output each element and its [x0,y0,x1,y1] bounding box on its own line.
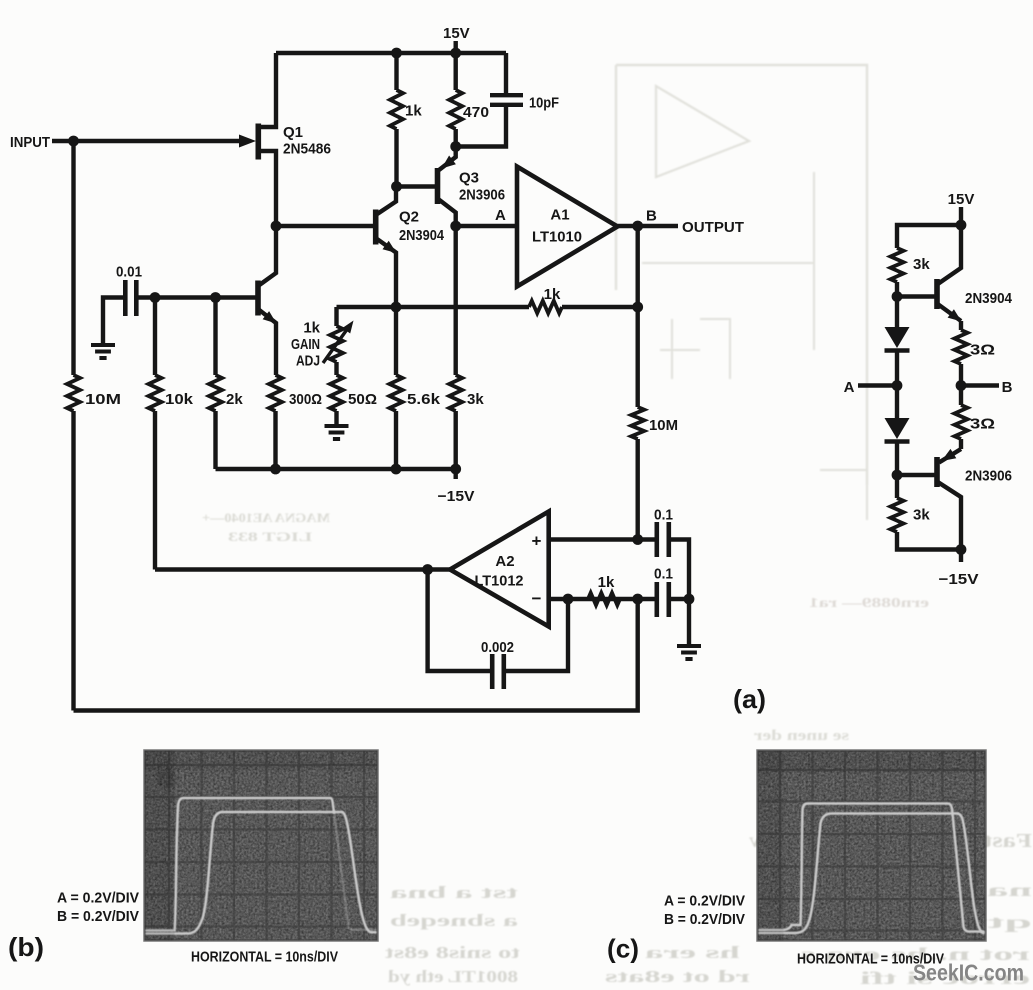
svg-text:1k: 1k [598,574,615,591]
svg-text:A1: A1 [550,207,569,224]
svg-text:HORIZONTAL = 10ns/DIV: HORIZONTAL = 10ns/DIV [191,949,338,966]
svg-text:15V: 15V [443,25,470,42]
svg-text:10k: 10k [165,391,194,408]
svg-text:A = 0.2V/DIV: A = 0.2V/DIV [664,893,745,910]
svg-text:1k: 1k [303,320,320,337]
svg-text:3k: 3k [913,256,930,273]
svg-text:tst a bna: tst a bna [389,883,518,902]
svg-text:se unen der: se unen der [754,728,849,744]
svg-text:1k: 1k [405,103,422,120]
svg-text:hs era: hs era [644,943,740,962]
svg-text:2N3906: 2N3906 [965,468,1012,485]
svg-text:B = 0.2V/DIV: B = 0.2V/DIV [664,911,745,928]
svg-text:2N5486: 2N5486 [283,141,331,158]
svg-text:GAIN: GAIN [291,336,320,353]
svg-text:5.6k: 5.6k [407,391,441,408]
svg-text:LT1010: LT1010 [532,229,582,246]
svg-text:OUTPUT: OUTPUT [682,219,744,236]
svg-text:to snis8 e8st: to snis8 e8st [384,943,520,962]
svg-text:A2: A2 [495,553,514,570]
svg-text:2N3906: 2N3906 [459,187,505,204]
svg-text:INPUT: INPUT [10,134,50,151]
svg-text:50Ω: 50Ω [348,391,377,408]
svg-text:1k: 1k [544,286,561,303]
svg-text:B = 0.2V/DIV: B = 0.2V/DIV [57,908,139,925]
svg-text:15V: 15V [948,191,975,208]
svg-text:B: B [646,208,657,225]
svg-text:−: − [532,589,542,608]
svg-text:ADJ: ADJ [296,353,320,370]
svg-text:300Ω: 300Ω [289,391,322,408]
svg-text:a sbneqeb: a sbneqeb [390,911,518,930]
svg-text:3k: 3k [467,391,484,408]
svg-text:MAGNA AE1040—+: MAGNA AE1040—+ [202,510,330,525]
svg-text:B: B [1002,379,1013,396]
svg-text:Q2: Q2 [399,209,419,226]
svg-text:10pF: 10pF [529,95,559,112]
svg-text:+: + [532,532,542,551]
svg-text:SeekIC.com: SeekIC.com [913,960,1024,986]
svg-text:3Ω: 3Ω [970,342,995,359]
svg-text:−15V: −15V [939,571,979,588]
svg-text:470: 470 [463,104,489,121]
svg-text:10M: 10M [649,417,678,434]
svg-text:2N3904: 2N3904 [399,227,445,244]
svg-text:A: A [844,379,855,396]
svg-text:A = 0.2V/DIV: A = 0.2V/DIV [57,890,139,907]
svg-text:2N3904: 2N3904 [965,290,1013,307]
svg-text:10M: 10M [85,391,121,408]
svg-text:Q1: Q1 [283,124,303,141]
svg-text:(a): (a) [733,684,766,714]
svg-text:0.01: 0.01 [116,264,142,281]
svg-text:3Ω: 3Ω [970,416,995,433]
svg-text:8001TL eth yd: 8001TL eth yd [387,967,518,986]
svg-text:0.002: 0.002 [481,639,514,656]
svg-text:Q3: Q3 [459,170,479,187]
svg-text:(c): (c) [607,934,639,964]
svg-text:2k: 2k [226,391,243,408]
svg-text:LT1012: LT1012 [475,573,524,590]
svg-text:0.1: 0.1 [654,507,673,524]
svg-text:rd ot e8ats: rd ot e8ats [604,967,750,986]
svg-text:−15V: −15V [438,488,475,505]
svg-text:3k: 3k [913,507,930,524]
svg-text:(b): (b) [8,932,44,962]
svg-text:ern0889— ra1: ern0889— ra1 [809,596,929,611]
svg-text:LIGT 833: LIGT 833 [227,529,312,544]
svg-text:0.1: 0.1 [654,566,673,583]
svg-text:A: A [495,207,506,224]
